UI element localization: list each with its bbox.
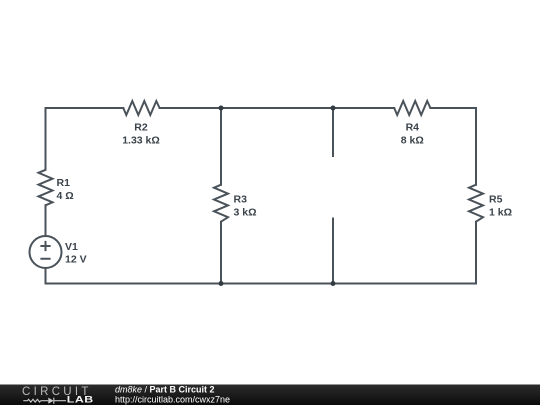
svg-text:LAB: LAB: [67, 395, 94, 405]
svg-text:R1: R1: [57, 177, 71, 189]
svg-text:1.33 kΩ: 1.33 kΩ: [122, 135, 160, 147]
svg-text:1 kΩ: 1 kΩ: [489, 207, 512, 219]
svg-text:http://circuitlab.com/cwxz7ne: http://circuitlab.com/cwxz7ne: [115, 394, 230, 404]
svg-text:R2: R2: [134, 122, 148, 134]
svg-text:R5: R5: [489, 194, 503, 206]
svg-text:3 kΩ: 3 kΩ: [234, 207, 257, 219]
svg-text:12 V: 12 V: [65, 253, 87, 265]
svg-text:dm8ke / Part B Circuit 2: dm8ke / Part B Circuit 2: [115, 384, 215, 394]
svg-text:V1: V1: [65, 241, 78, 253]
svg-text:R3: R3: [234, 194, 248, 206]
svg-text:R4: R4: [406, 122, 420, 134]
svg-text:8 kΩ: 8 kΩ: [401, 135, 424, 147]
svg-text:4 Ω: 4 Ω: [57, 190, 74, 202]
